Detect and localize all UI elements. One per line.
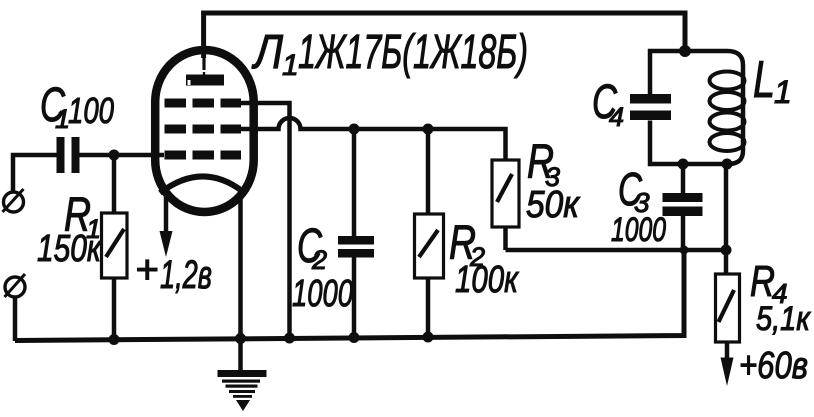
label R1 150k — [37, 189, 103, 270]
svg-text:100: 100 — [68, 90, 114, 131]
wire grid3 input — [80, 153, 165, 158]
svg-text:L: L — [753, 51, 775, 109]
wire screen grid row2 to R3 (with hop) — [241, 118, 506, 160]
capacitor C2 — [338, 129, 374, 338]
wire bottom ground rail — [15, 250, 684, 341]
tube grid row 2 (dashes) — [165, 125, 242, 134]
label C2 1000 — [292, 220, 353, 315]
inductor L1 coil — [710, 72, 745, 152]
svg-text:1000: 1000 — [611, 211, 666, 249]
wire grid1 to ground rail — [239, 103, 290, 339]
junction: rail / R2 bottom — [423, 332, 434, 343]
junction: R4 top node — [721, 245, 732, 256]
tube U1 envelope — [155, 50, 254, 212]
wire cathode to ground — [238, 189, 243, 371]
resistor R2 — [415, 129, 444, 338]
terminal input 1 — [3, 189, 24, 212]
wire terminal2 down to rail — [13, 297, 18, 341]
svg-text:2: 2 — [311, 245, 327, 275]
label R2 100k — [449, 217, 520, 301]
svg-text:1: 1 — [774, 74, 792, 110]
svg-text:1: 1 — [282, 49, 299, 82]
junction: input grid node (C1/R1) — [109, 150, 120, 161]
svg-text:+60в: +60в — [739, 345, 808, 387]
tank loop wires (C4/L1 frame) — [650, 51, 743, 164]
junction: screen line / C2 top — [349, 124, 360, 135]
resistor R3 — [492, 160, 519, 250]
junction: tank bottom / C3 — [678, 159, 689, 170]
junction: screen line / R2 top — [423, 124, 434, 135]
svg-text:5,1к: 5,1к — [756, 300, 812, 338]
capacitor C3 — [663, 164, 703, 250]
junction: anode feed / tank top — [679, 45, 691, 57]
label C4 — [592, 76, 624, 132]
tube grid row 3 (dashes) — [165, 151, 242, 160]
junction: rail / grid1 return — [284, 333, 295, 344]
junction: rail / C2 bottom — [349, 332, 360, 343]
label C3 1000 — [611, 163, 666, 249]
capacitor C1 plates — [57, 137, 80, 173]
wire tank bottom to R4 — [724, 164, 729, 250]
tube anode plate bar — [186, 75, 224, 86]
supply arrow +60v — [721, 342, 734, 386]
svg-text:1000: 1000 — [292, 273, 353, 315]
svg-text:1Ж17Б(1Ж18Б): 1Ж17Б(1Ж18Б) — [298, 26, 528, 79]
junction: rail / cathode-ground — [235, 333, 246, 344]
svg-text:50к: 50к — [526, 184, 581, 226]
tube grid row 1 (dashes) — [165, 99, 242, 108]
svg-text:150к: 150к — [37, 228, 103, 270]
svg-text:+: + — [135, 248, 158, 292]
svg-text:100к: 100к — [455, 259, 520, 301]
wire top rail (anode to tank top) — [204, 13, 685, 58]
svg-text:1,2в: 1,2в — [160, 253, 212, 297]
label R4 5,1k — [750, 257, 812, 338]
label tube Л1 1Ж17Б(1Ж18Б) — [251, 26, 528, 82]
terminal input 2 — [5, 274, 26, 297]
label R3 50k — [526, 136, 581, 226]
label L1 — [753, 51, 792, 110]
wire R3 bottom to R4 node — [506, 248, 727, 253]
ground symbol — [218, 370, 267, 411]
junction: rail / R1 bottom — [109, 334, 120, 345]
capacitor C4 plates — [630, 94, 671, 120]
svg-text:4: 4 — [609, 102, 624, 132]
tube cathode arc — [160, 176, 242, 193]
label C1 100 — [40, 79, 114, 134]
resistor R1 — [102, 155, 128, 340]
resistor R4 — [716, 250, 740, 342]
wire terminal1 to C1 — [13, 155, 57, 192]
junction: C3 bottom / rail riser — [680, 246, 689, 255]
filament arrow +1,2v — [160, 190, 173, 257]
junction: tank bottom / R4 branch — [722, 159, 733, 170]
svg-text:Л: Л — [251, 26, 283, 79]
